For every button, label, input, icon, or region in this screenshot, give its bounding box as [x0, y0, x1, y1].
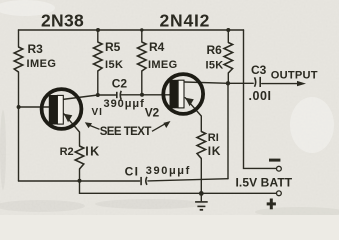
svg-text:R2: R2 — [60, 146, 74, 158]
svg-text:R5: R5 — [105, 40, 121, 54]
svg-text:IK: IK — [208, 144, 221, 158]
svg-text:IMEG: IMEG — [27, 58, 57, 70]
svg-text:SEE TEXT: SEE TEXT — [100, 126, 152, 138]
svg-text:CI: CI — [125, 165, 140, 179]
svg-text:R3: R3 — [28, 42, 44, 56]
svg-text:R6: R6 — [207, 43, 223, 57]
svg-text:390μμf: 390μμf — [146, 165, 191, 177]
svg-text:IMEG: IMEG — [148, 59, 178, 71]
svg-text:R4: R4 — [149, 40, 165, 54]
svg-text:.00I: .00I — [249, 89, 272, 103]
svg-text:390μμf: 390μμf — [104, 98, 145, 110]
svg-text:I5K: I5K — [206, 60, 224, 72]
svg-text:2N38: 2N38 — [41, 10, 84, 30]
svg-text:V2: V2 — [145, 106, 160, 120]
svg-text:OUTPUT: OUTPUT — [271, 69, 318, 81]
svg-text:C2: C2 — [112, 77, 128, 91]
svg-text:VI: VI — [92, 107, 103, 118]
svg-text:RI: RI — [208, 132, 219, 144]
svg-text:I.5V BATT: I.5V BATT — [236, 176, 293, 190]
svg-text:I5K: I5K — [105, 59, 123, 71]
svg-text:IK: IK — [85, 145, 101, 159]
svg-text:C3: C3 — [251, 63, 267, 77]
svg-text:2N4I2: 2N4I2 — [160, 10, 211, 30]
